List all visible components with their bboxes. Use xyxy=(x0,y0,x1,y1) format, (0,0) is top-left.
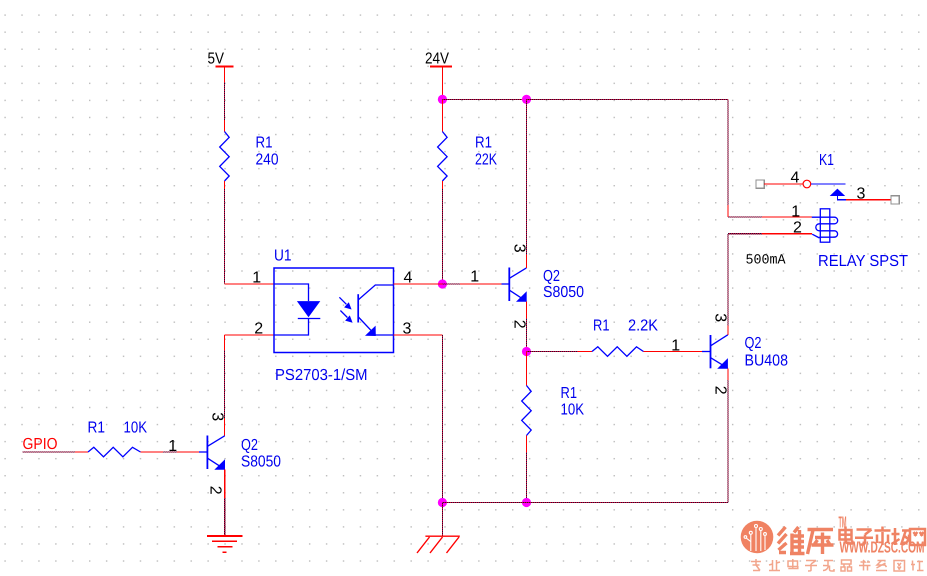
svg-text:1: 1 xyxy=(671,338,680,355)
svg-text:1: 1 xyxy=(252,270,261,287)
light arrow 1 inside U1 xyxy=(339,297,351,309)
svg-text:22K: 22K xyxy=(475,152,497,169)
resistor R1 2.2K xyxy=(592,347,644,357)
wire junction B to Q2 S8050 base xyxy=(442,283,501,285)
wire U1 pin 4 to junction B xyxy=(394,283,443,285)
junction 24V rail A xyxy=(438,95,447,104)
watermark logo circle xyxy=(741,521,774,554)
svg-text:WWW.DZSC.COM: WWW.DZSC.COM xyxy=(840,540,925,557)
wire junction D to resistor R1 2.2K xyxy=(527,351,593,353)
relay K1 armature arrow xyxy=(830,189,846,196)
wire R1 10K to junction E xyxy=(526,436,528,503)
svg-text:1: 1 xyxy=(168,438,177,455)
svg-text:R1: R1 xyxy=(88,420,106,437)
watermark big character wei xyxy=(778,527,805,554)
watermark big character ku xyxy=(808,530,834,555)
wire Q2 emitter to ground xyxy=(224,469,226,535)
resistor R1 240 xyxy=(220,132,230,182)
wire R1 240 to U1 pin 1 xyxy=(225,181,275,284)
svg-text:BU408: BU408 xyxy=(745,353,789,370)
resistor R1 10K (horizontal) xyxy=(88,447,141,457)
top rail wire junction A to junction C xyxy=(442,98,526,100)
wire junction F to chassis ground xyxy=(441,503,443,537)
relay K1 terminal 3 pad xyxy=(891,196,899,204)
relay K1 coil xyxy=(812,209,838,242)
svg-text:R1: R1 xyxy=(561,385,578,402)
svg-text:U1: U1 xyxy=(274,248,292,265)
wire Q2 middle emitter to junction D xyxy=(525,301,527,351)
svg-text:10K: 10K xyxy=(124,420,148,437)
svg-text:240: 240 xyxy=(256,152,279,169)
resistor R1 10K (vertical) xyxy=(522,386,532,436)
relay K1 terminal 4 pad xyxy=(756,180,764,188)
watermark character dian xyxy=(840,527,853,544)
junction E xyxy=(522,498,531,507)
watermark character zi xyxy=(855,530,873,545)
svg-text:2: 2 xyxy=(711,386,728,395)
svg-text:R1: R1 xyxy=(593,318,610,335)
wire BU408 emitter to bottom rail xyxy=(727,368,729,502)
ground symbol (signal ground) xyxy=(207,536,242,552)
transistor Q2 S8050 (middle) xyxy=(502,268,527,302)
svg-text:5V: 5V xyxy=(208,51,225,68)
watermark character wang xyxy=(910,529,925,545)
watermark character shi xyxy=(875,527,891,546)
svg-text:2.2K: 2.2K xyxy=(628,318,658,335)
junction F xyxy=(438,498,447,507)
svg-text:K1: K1 xyxy=(819,152,834,169)
transistor Q2 S8050 (lower left) xyxy=(199,436,225,470)
wire armature to terminal 3 xyxy=(846,199,891,201)
svg-text:S8050: S8050 xyxy=(543,284,584,301)
resistor R1 22K xyxy=(438,132,448,182)
svg-text:24V: 24V xyxy=(425,51,449,68)
svg-text:10K: 10K xyxy=(561,402,585,419)
svg-text:3: 3 xyxy=(711,313,728,322)
watermark slogan characters xyxy=(751,559,924,571)
relay K1 fixed contact circle xyxy=(803,180,811,188)
svg-text:R1: R1 xyxy=(256,135,273,152)
relay K1 armature wire xyxy=(837,196,846,200)
wire 5V to resistor R1 240 xyxy=(224,82,226,132)
transistor Q2 BU408 xyxy=(702,335,728,369)
bottom rail wire junction E to BU408 emitter xyxy=(527,502,729,504)
svg-text:3: 3 xyxy=(857,185,866,202)
wire relay coil pin 1 xyxy=(728,216,812,218)
chassis ground symbol xyxy=(417,536,460,553)
wire relay pin 2 to BU408 collector xyxy=(727,234,729,335)
power 5V bar symbol xyxy=(215,67,233,83)
junction B at U1 pin 4 xyxy=(438,279,447,288)
LED inside U1 xyxy=(274,284,320,335)
svg-text:4: 4 xyxy=(791,170,800,187)
wire 24V rail to Q2 middle collector xyxy=(525,99,527,268)
svg-text:2: 2 xyxy=(254,321,263,338)
svg-text:Q2: Q2 xyxy=(241,437,258,454)
wire R1 10K to Q2 base xyxy=(141,451,200,453)
wire relay coil pin 2 xyxy=(728,233,812,235)
svg-text:2: 2 xyxy=(206,486,223,495)
wire junction D to resistor R1 10K (vertical) xyxy=(526,352,528,386)
svg-text:Q2: Q2 xyxy=(745,335,762,352)
wire R1 22K to junction B xyxy=(441,181,443,284)
wire GPIO to resistor R1 10K xyxy=(23,451,88,453)
svg-text:Q2: Q2 xyxy=(543,268,560,285)
svg-text:3: 3 xyxy=(208,412,225,421)
svg-text:PS2703-1/SM: PS2703-1/SM xyxy=(275,367,368,384)
svg-text:1: 1 xyxy=(791,204,800,221)
svg-text:2: 2 xyxy=(793,220,802,237)
top rail wire junction C to relay branch xyxy=(527,99,729,217)
wire junction to resistor R1 22K xyxy=(441,99,443,131)
junction C xyxy=(522,95,531,104)
wire R1 2.2K to Q2 BU408 base xyxy=(644,351,703,353)
svg-text:S8050: S8050 xyxy=(241,454,281,471)
svg-text:R1: R1 xyxy=(475,135,492,152)
bottom rail wire junction F to junction E xyxy=(442,502,526,504)
wire U1 pin 2 to Q2 collector xyxy=(225,335,275,436)
watermark character chang xyxy=(892,528,910,545)
svg-text:1: 1 xyxy=(470,269,479,286)
svg-text:2: 2 xyxy=(510,320,527,329)
svg-text:GPIO: GPIO xyxy=(23,436,58,453)
wire terminal to contact circle xyxy=(764,183,803,185)
light arrow 2 inside U1 xyxy=(340,311,352,323)
phototransistor inside U1 xyxy=(358,285,393,336)
wire 24V to junction xyxy=(441,68,443,100)
svg-text:500mA: 500mA xyxy=(746,253,787,269)
power 24V bar symbol xyxy=(430,66,452,68)
wire U1 pin 3 down xyxy=(394,335,443,503)
junction D xyxy=(522,347,531,356)
optocoupler U1 body xyxy=(274,268,394,353)
svg-text:3: 3 xyxy=(510,244,527,253)
relay K1 contact blue line xyxy=(811,183,846,185)
svg-text:RELAY SPST: RELAY SPST xyxy=(818,253,908,270)
